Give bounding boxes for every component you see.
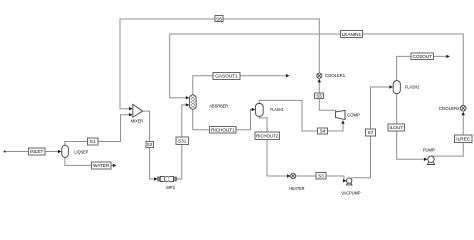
flash drum FLASH1 (255, 104, 263, 117)
compressor COMP (336, 110, 346, 119)
wire RICHOUT1 (193, 109, 252, 129)
mixer MIXER (133, 104, 143, 117)
arrow S3 into VACPUMP (343, 179, 347, 182)
svg-text:COOLER2: COOLER2 (439, 106, 460, 111)
stream label RICHOUT2 (255, 132, 280, 139)
stream label S6 (215, 16, 223, 22)
wire S3 (296, 176, 344, 181)
svg-text:HEATER: HEATER (289, 186, 304, 191)
svg-text:FLASH1: FLASH1 (270, 107, 284, 112)
svg-text:CO2OUT: CO2OUT (413, 54, 433, 59)
arrow WATER end (113, 164, 117, 167)
wire RICHOUT2 (259, 116, 287, 176)
arrow RICHOUT2 into HEATER (287, 174, 291, 177)
svg-text:ILOUT: ILOUT (389, 125, 403, 130)
svg-text:PUMP: PUMP (423, 147, 435, 152)
stream label S1 (88, 138, 98, 145)
svg-text:ILREC: ILREC (456, 136, 470, 141)
stream label S3 (316, 172, 326, 179)
arrow S2 into MP2 (154, 177, 158, 180)
heat exchanger HEATER (291, 173, 296, 178)
wire pump outlet (431, 142, 463, 156)
column ABSRBER (190, 95, 197, 110)
arrow S5 into COOLER1 (318, 79, 321, 83)
wire S6 (120, 19, 319, 109)
stream label S31 (176, 137, 189, 145)
arrow ILOUT into PUMP (424, 158, 428, 161)
wire S1 (65, 115, 129, 146)
heat exchanger COOLER2 (460, 106, 466, 112)
svg-text:S7: S7 (368, 130, 374, 135)
flash drum FLASH2 (393, 81, 400, 94)
wire INLET (5, 151, 59, 153)
stream label S2 (146, 141, 154, 147)
arrow RICHOUT1 into FLASH1 (252, 108, 256, 111)
wire ILOUT (397, 94, 424, 160)
svg-text:S31: S31 (178, 138, 187, 143)
svg-text:ABSRBER: ABSRBER (209, 103, 228, 108)
pump PUMP (427, 156, 434, 164)
arrow S31 into ABSRBER (186, 103, 190, 106)
heat exchanger COOLER1 (317, 73, 322, 78)
arrow into LIQSEP (58, 150, 62, 153)
stream label ILOUT (388, 124, 404, 131)
arrow S7 into FLASH2 (389, 85, 393, 88)
stream label ILREC (455, 135, 472, 142)
wire LEANIN1 (170, 34, 464, 105)
svg-text:COMP: COMP (347, 112, 360, 117)
wire GASOUT1 (193, 76, 286, 95)
stream label RICHOUT1 (210, 127, 236, 134)
svg-text:RICHOUT2: RICHOUT2 (256, 134, 278, 139)
pump MP2 (158, 176, 176, 181)
arrow LEANIN1 into ABSRBER (186, 96, 190, 99)
wire S2 (143, 111, 154, 179)
wire S4 (259, 100, 343, 131)
svg-text:S6: S6 (216, 16, 222, 21)
svg-text:WATER: WATER (93, 163, 110, 168)
svg-text:RICHOUT1: RICHOUT1 (211, 128, 235, 133)
wire S5 (319, 82, 335, 112)
svg-text:LEANIN1: LEANIN1 (342, 32, 362, 37)
wire CO2OUT (397, 56, 447, 80)
pump VACPUMP (346, 178, 352, 185)
svg-text:GASOUT1: GASOUT1 (215, 74, 238, 79)
arrow GASOUT1 end (286, 74, 290, 77)
svg-text:S5: S5 (316, 93, 322, 98)
svg-text:FLASH2: FLASH2 (405, 84, 420, 89)
svg-text:S1: S1 (90, 139, 96, 144)
svg-text:S3: S3 (318, 173, 324, 178)
stream label GASOUT1 (213, 72, 240, 79)
stream label LEANIN1 (340, 31, 362, 38)
svg-text:MIXER: MIXER (131, 119, 143, 124)
wire S7 (352, 87, 390, 178)
node feed origin (4, 151, 6, 153)
svg-text:MP2: MP2 (166, 185, 175, 190)
wire S31 (176, 105, 185, 179)
stream label INLET (29, 148, 46, 155)
arrow ILREC into COOLER2 (462, 112, 465, 116)
separator LIQSEP (62, 145, 69, 157)
arrow S4 into COMP (341, 120, 344, 124)
svg-text:LIQSEP: LIQSEP (74, 150, 88, 155)
svg-text:VACPUMP: VACPUMP (341, 191, 361, 196)
svg-text:INLET: INLET (30, 149, 43, 154)
stream label S7 (365, 129, 375, 136)
arrow CO2OUT end (446, 55, 450, 58)
stream label WATER (91, 162, 111, 169)
arrow S1 into MIXER (129, 113, 133, 116)
stream label CO2OUT (411, 53, 434, 59)
svg-text:S2: S2 (147, 142, 153, 147)
svg-text:S4: S4 (320, 129, 326, 134)
stream label S4 (318, 128, 328, 134)
wire ILREC to COOLER2 (462, 115, 464, 135)
stream label S5 (315, 93, 324, 99)
arrow S6 into MIXER (129, 107, 133, 110)
wire WATER (65, 158, 113, 166)
svg-text:COOLER1: COOLER1 (325, 73, 346, 78)
